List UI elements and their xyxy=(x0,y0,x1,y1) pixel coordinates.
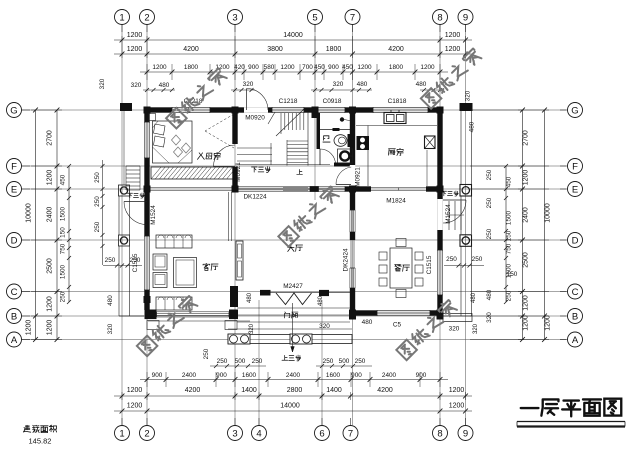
svg-text:320: 320 xyxy=(333,81,344,88)
svg-text:A: A xyxy=(11,335,18,346)
svg-text:1200: 1200 xyxy=(523,295,530,311)
svg-text:250: 250 xyxy=(94,221,101,232)
svg-text:B: B xyxy=(11,311,17,322)
svg-text:1200: 1200 xyxy=(445,46,461,53)
svg-text:320: 320 xyxy=(99,78,106,89)
svg-text:C1515: C1515 xyxy=(426,255,433,274)
svg-text:500: 500 xyxy=(339,358,350,365)
svg-text:9: 9 xyxy=(463,12,468,23)
svg-text:DK1224: DK1224 xyxy=(243,194,267,201)
svg-text:8: 8 xyxy=(437,428,442,439)
svg-text:10000: 10000 xyxy=(545,203,552,223)
svg-text:1200: 1200 xyxy=(127,387,143,394)
svg-text:250: 250 xyxy=(323,358,334,365)
svg-text:2400: 2400 xyxy=(286,372,301,379)
svg-text:4200: 4200 xyxy=(183,46,199,53)
svg-text:14000: 14000 xyxy=(280,403,300,410)
svg-text:2400: 2400 xyxy=(182,372,197,379)
svg-text:700: 700 xyxy=(302,64,313,71)
svg-text:C: C xyxy=(572,287,579,298)
svg-text:145.82: 145.82 xyxy=(29,437,52,445)
svg-text:F: F xyxy=(11,161,17,172)
svg-text:250: 250 xyxy=(446,256,457,263)
svg-text:450: 450 xyxy=(60,174,67,185)
svg-text:7: 7 xyxy=(348,428,353,439)
svg-text:320: 320 xyxy=(107,323,114,334)
svg-text:2500: 2500 xyxy=(523,252,530,268)
svg-text:480: 480 xyxy=(107,295,114,306)
svg-text:E: E xyxy=(11,184,17,195)
svg-text:250: 250 xyxy=(486,197,493,208)
svg-text:250: 250 xyxy=(94,196,101,207)
svg-text:900: 900 xyxy=(152,372,163,379)
svg-text:1200: 1200 xyxy=(127,46,143,53)
svg-text:3: 3 xyxy=(232,428,237,439)
svg-text:1600: 1600 xyxy=(326,372,341,379)
svg-text:1: 1 xyxy=(119,12,124,23)
svg-text:1200: 1200 xyxy=(127,403,143,410)
svg-text:B: B xyxy=(572,311,578,322)
svg-text:M0920: M0920 xyxy=(245,115,265,122)
svg-text:320: 320 xyxy=(449,326,460,333)
svg-text:750: 750 xyxy=(60,243,67,254)
svg-text:C1218: C1218 xyxy=(279,98,298,105)
svg-text:480: 480 xyxy=(486,289,493,300)
svg-text:250: 250 xyxy=(217,358,228,365)
svg-text:2400: 2400 xyxy=(382,372,397,379)
svg-text:M1824: M1824 xyxy=(386,198,406,205)
svg-text:2500: 2500 xyxy=(47,258,54,274)
svg-text:900: 900 xyxy=(416,372,427,379)
svg-text:1: 1 xyxy=(119,428,124,439)
svg-text:M1524: M1524 xyxy=(445,204,452,224)
svg-text:1200: 1200 xyxy=(127,32,143,39)
svg-text:1200: 1200 xyxy=(47,320,54,336)
svg-text:F: F xyxy=(572,161,578,172)
svg-text:C1818: C1818 xyxy=(388,98,407,105)
svg-text:C5: C5 xyxy=(393,322,402,329)
svg-text:1800: 1800 xyxy=(184,64,199,71)
svg-text:2: 2 xyxy=(144,428,149,439)
svg-text:420: 420 xyxy=(234,64,245,71)
svg-text:A: A xyxy=(572,335,579,346)
svg-text:3800: 3800 xyxy=(267,46,283,53)
svg-text:4200: 4200 xyxy=(185,387,201,394)
svg-text:7: 7 xyxy=(350,12,355,23)
svg-text:450: 450 xyxy=(342,64,353,71)
svg-text:320: 320 xyxy=(473,323,479,334)
svg-text:480: 480 xyxy=(247,292,253,303)
svg-text:2700: 2700 xyxy=(47,130,54,146)
svg-text:C0918: C0918 xyxy=(323,98,342,105)
svg-text:2400: 2400 xyxy=(523,207,530,223)
svg-text:M2427: M2427 xyxy=(283,283,303,290)
svg-text:250: 250 xyxy=(472,256,483,263)
svg-text:DK2424: DK2424 xyxy=(343,248,350,272)
svg-text:320: 320 xyxy=(243,81,254,88)
svg-text:1200: 1200 xyxy=(420,64,435,71)
svg-text:G: G xyxy=(10,105,17,116)
svg-text:1200: 1200 xyxy=(545,315,552,331)
svg-text:C: C xyxy=(11,287,18,298)
svg-text:1500: 1500 xyxy=(506,210,513,225)
svg-text:4200: 4200 xyxy=(388,46,404,53)
svg-text:1200: 1200 xyxy=(445,32,461,39)
svg-text:1200: 1200 xyxy=(449,387,465,394)
svg-text:250: 250 xyxy=(60,291,67,302)
svg-text:150: 150 xyxy=(60,227,67,238)
svg-text:500: 500 xyxy=(235,358,246,365)
svg-text:580: 580 xyxy=(264,64,275,71)
svg-text:1800: 1800 xyxy=(389,64,404,71)
svg-text:250: 250 xyxy=(506,290,513,301)
svg-text:1800: 1800 xyxy=(326,46,342,53)
svg-text:480: 480 xyxy=(159,82,170,89)
svg-text:250: 250 xyxy=(252,358,263,365)
svg-text:250: 250 xyxy=(203,348,210,359)
svg-text:250: 250 xyxy=(486,169,493,180)
svg-text:D: D xyxy=(11,235,18,246)
svg-text:2400: 2400 xyxy=(47,207,54,223)
svg-text:320: 320 xyxy=(249,323,255,334)
svg-text:D: D xyxy=(572,235,579,246)
svg-text:10000: 10000 xyxy=(26,203,33,223)
svg-text:480: 480 xyxy=(357,81,368,88)
svg-text:450: 450 xyxy=(506,176,513,187)
svg-text:5: 5 xyxy=(312,12,317,23)
svg-text:1200: 1200 xyxy=(280,64,295,71)
svg-text:250: 250 xyxy=(94,172,101,183)
svg-text:900: 900 xyxy=(351,372,362,379)
svg-text:1200: 1200 xyxy=(449,403,465,410)
svg-text:1200: 1200 xyxy=(152,64,167,71)
svg-text:1200: 1200 xyxy=(26,320,33,336)
svg-text:250: 250 xyxy=(130,257,141,264)
svg-text:450: 450 xyxy=(314,64,325,71)
svg-text:1500: 1500 xyxy=(60,206,67,221)
svg-text:1200: 1200 xyxy=(47,170,54,186)
svg-text:14000: 14000 xyxy=(283,32,303,39)
svg-text:480: 480 xyxy=(318,295,324,306)
svg-text:9: 9 xyxy=(463,428,468,439)
svg-text:M0921: M0921 xyxy=(235,162,242,182)
svg-text:900: 900 xyxy=(216,372,227,379)
svg-text:1200: 1200 xyxy=(523,315,530,331)
svg-text:320: 320 xyxy=(319,323,330,330)
svg-text:G: G xyxy=(571,105,578,116)
svg-text:320: 320 xyxy=(465,90,472,101)
svg-text:2800: 2800 xyxy=(287,387,303,394)
svg-text:1400: 1400 xyxy=(241,387,257,394)
svg-text:250: 250 xyxy=(486,228,493,239)
svg-text:1200: 1200 xyxy=(47,296,54,312)
svg-text:900: 900 xyxy=(328,64,339,71)
svg-text:320: 320 xyxy=(131,82,142,89)
svg-text:1400: 1400 xyxy=(326,387,342,394)
svg-text:3: 3 xyxy=(232,12,237,23)
svg-text:480: 480 xyxy=(471,292,477,303)
svg-text:4200: 4200 xyxy=(377,387,393,394)
svg-text:4: 4 xyxy=(256,428,261,439)
svg-text:M0921: M0921 xyxy=(355,167,362,187)
svg-text:250: 250 xyxy=(355,358,366,365)
svg-text:480: 480 xyxy=(469,121,476,132)
svg-text:750: 750 xyxy=(506,243,513,254)
svg-text:150: 150 xyxy=(507,271,518,278)
svg-text:1500: 1500 xyxy=(60,264,67,279)
svg-text:1200: 1200 xyxy=(357,64,372,71)
svg-text:250: 250 xyxy=(105,257,116,264)
svg-text:480: 480 xyxy=(416,81,427,88)
svg-text:2700: 2700 xyxy=(523,130,530,146)
svg-text:1600: 1600 xyxy=(242,372,257,379)
svg-text:E: E xyxy=(572,184,578,195)
svg-text:6: 6 xyxy=(319,428,324,439)
svg-text:480: 480 xyxy=(362,319,373,326)
svg-text:8: 8 xyxy=(437,12,442,23)
svg-text:M1524: M1524 xyxy=(150,205,157,225)
svg-text:900: 900 xyxy=(248,64,259,71)
svg-text:1200: 1200 xyxy=(523,170,530,186)
svg-text:2: 2 xyxy=(144,12,149,23)
svg-text:320: 320 xyxy=(486,312,493,323)
